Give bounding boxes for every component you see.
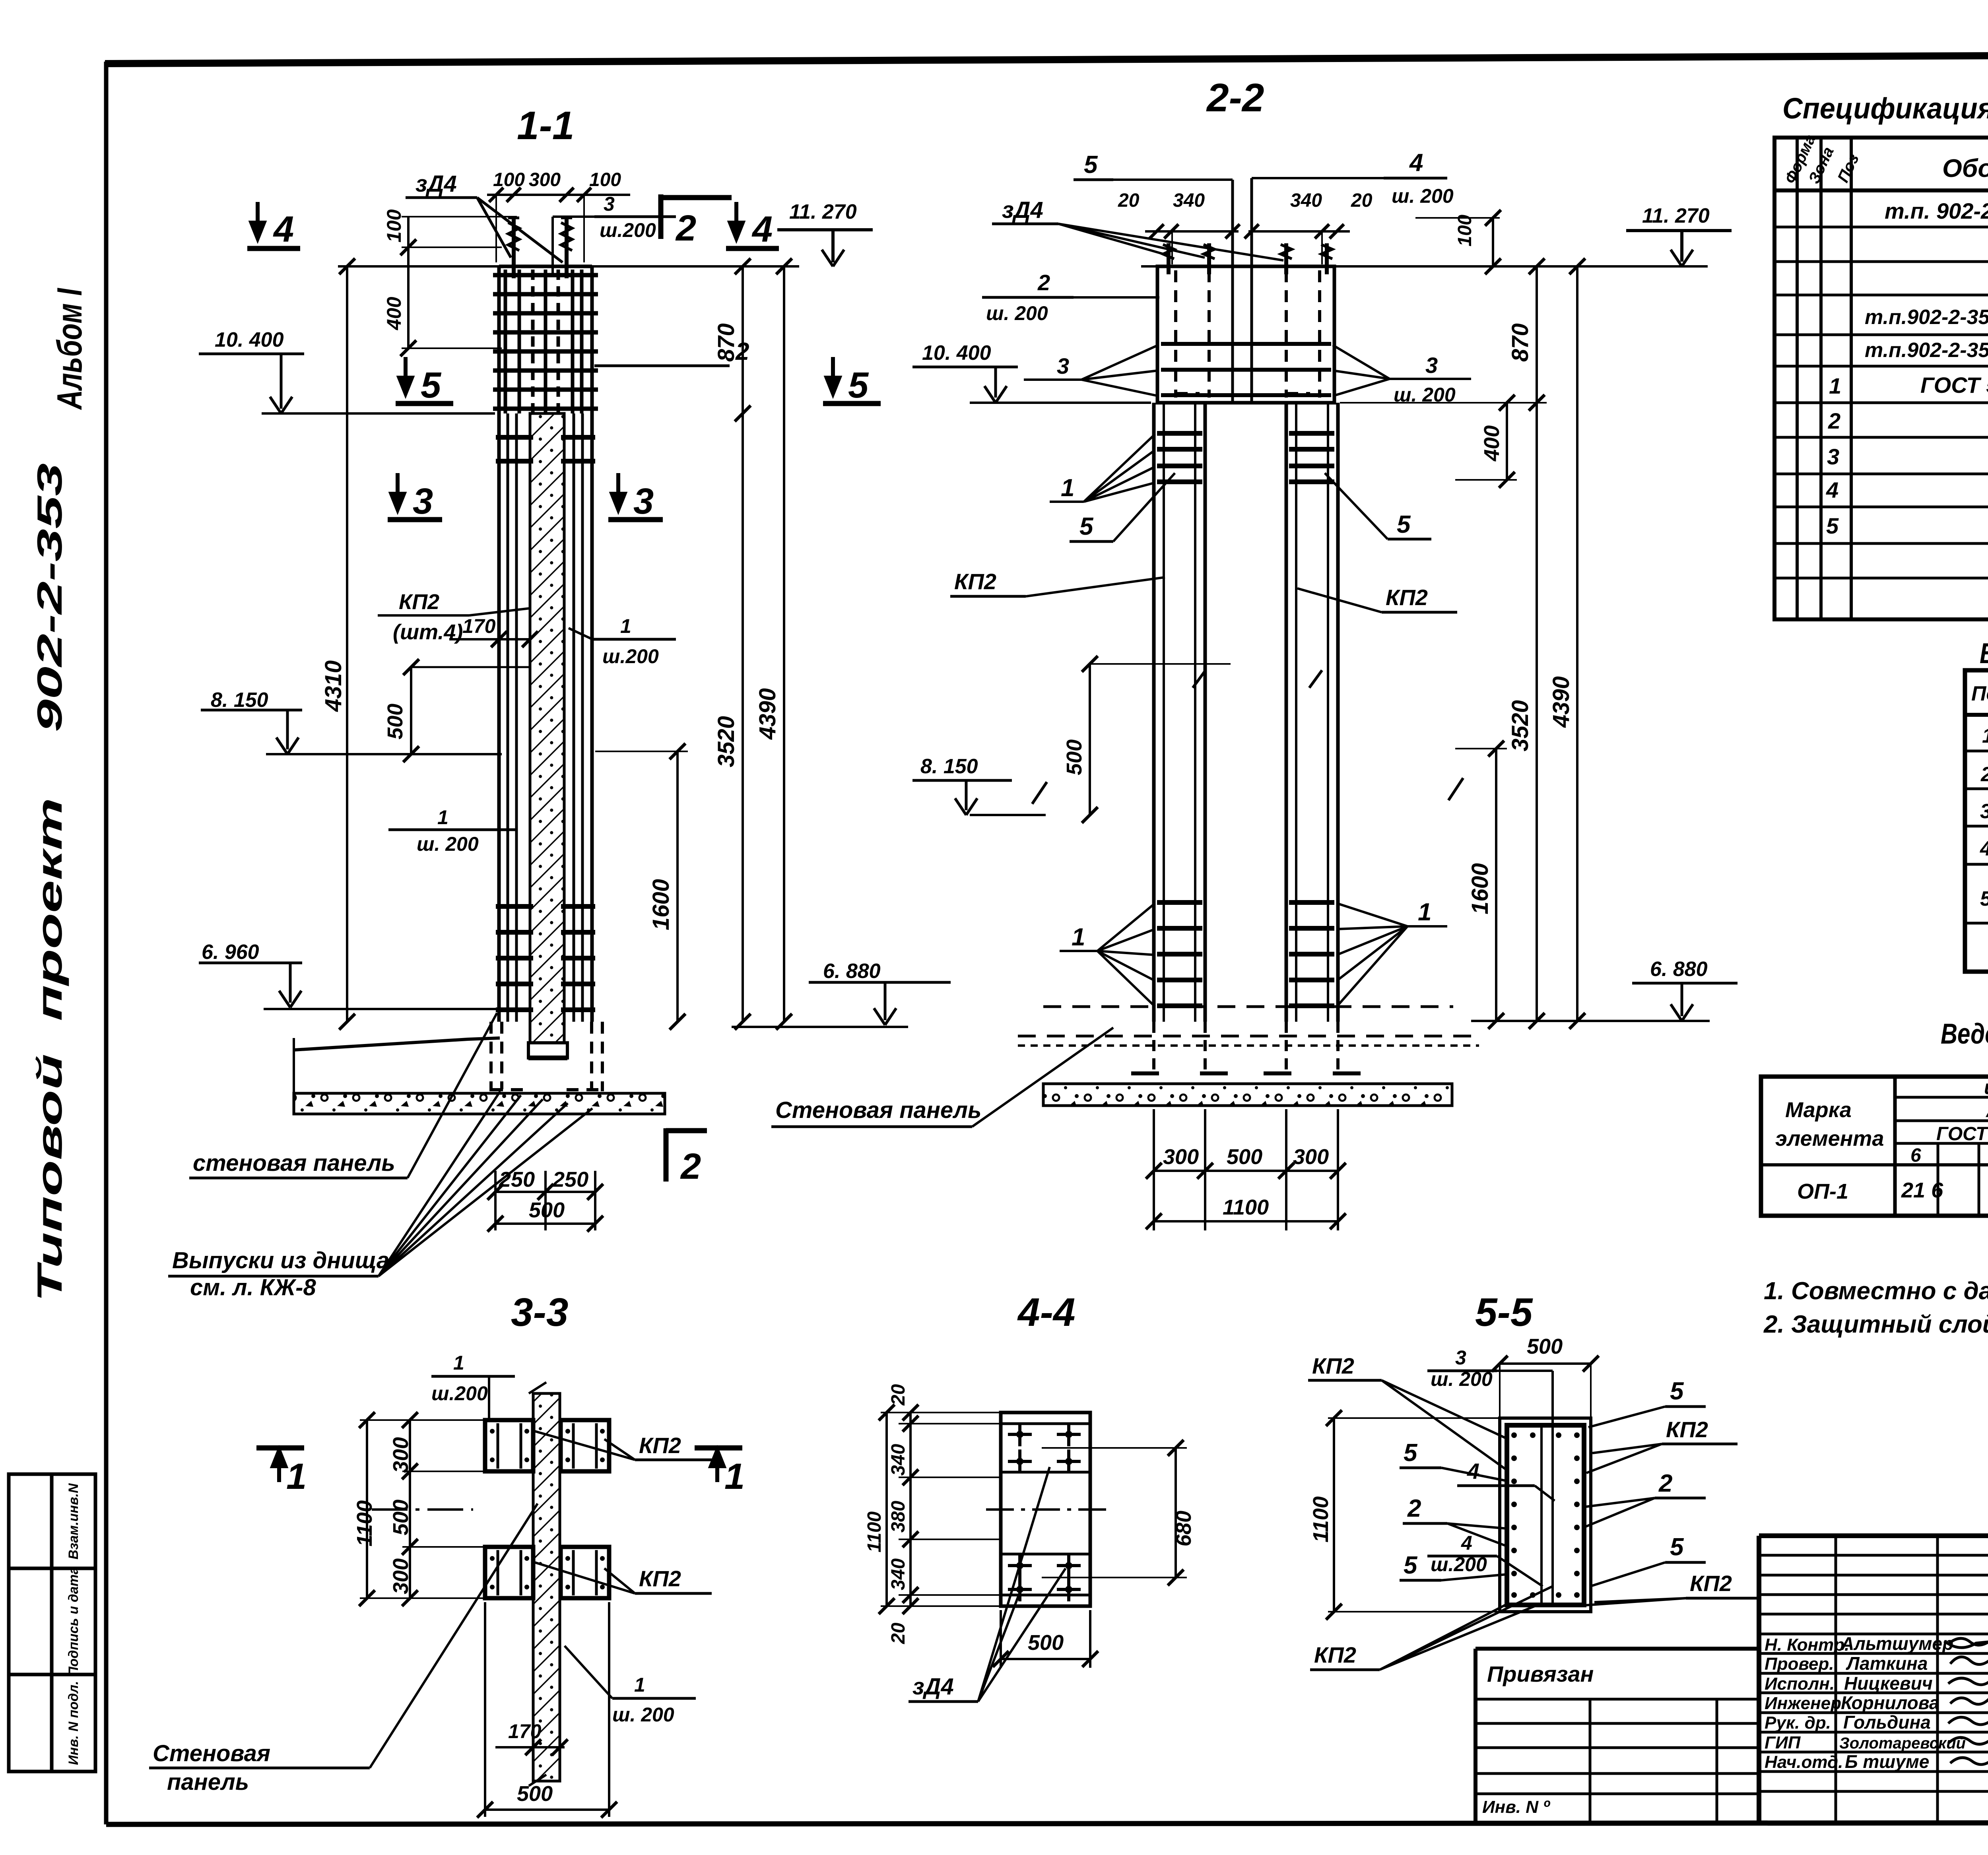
svg-text:1: 1 — [1418, 898, 1431, 926]
svg-text:4: 4 — [273, 209, 294, 250]
bottom dims 250/250/500 — [487, 1168, 603, 1232]
svg-text:5: 5 — [1980, 887, 1988, 910]
section marker 4 left — [247, 202, 300, 250]
lower leg ties 2-2 — [1157, 902, 1334, 1006]
lower ties — [496, 906, 595, 1010]
svg-text:300: 300 — [389, 1558, 413, 1594]
svg-text:2: 2 — [1407, 1495, 1421, 1522]
LEFTMARGIN — [9, 288, 95, 1772]
leg dashed continuations — [1154, 1022, 1338, 1073]
svg-text:10. 400: 10. 400 — [922, 342, 991, 365]
top rebar grid — [505, 270, 582, 413]
elevation 10.400 2-2 — [912, 342, 1151, 403]
svg-text:изделия: изделия — [1984, 1076, 1988, 1098]
svg-text:5: 5 — [1826, 513, 1839, 538]
svg-text:6. 960: 6. 960 — [202, 941, 259, 964]
svg-text:250: 250 — [552, 1168, 588, 1191]
svg-text:3: 3 — [1827, 444, 1839, 469]
svg-text:4: 4 — [1461, 1532, 1472, 1554]
wall panel strip 3-3 — [533, 1393, 560, 1781]
svg-text:ш.200: ш.200 — [431, 1382, 488, 1405]
label 3 ш.200 top 5-5 — [1427, 1347, 1553, 1425]
dim column 20/340/380/340/20 — [864, 1384, 1001, 1644]
svg-text:500: 500 — [1062, 739, 1086, 775]
bar 5 leader top — [1074, 151, 1233, 403]
svg-text:ГОСТ 5781-81: ГОСТ 5781-81 — [1920, 373, 1988, 398]
label 3Д4 2-2 — [992, 197, 1283, 260]
floor slab line — [294, 1038, 500, 1050]
svg-text:КП2: КП2 — [1314, 1642, 1356, 1667]
svg-text:т.п.902-2-353-КЖИ-ОП-1-зД4: т.п.902-2-353-КЖИ-ОП-1-зД4 — [1865, 306, 1988, 329]
svg-text:8. 150: 8. 150 — [211, 689, 268, 712]
svg-text:5: 5 — [848, 365, 869, 406]
svg-text:4: 4 — [1980, 837, 1988, 860]
cage box bottom-right — [561, 1547, 609, 1598]
svg-text:300: 300 — [1293, 1145, 1329, 1169]
label КП2 top-left 5-5 — [1308, 1353, 1508, 1471]
S55 — [1308, 1290, 1761, 1670]
steel table texts — [1775, 1075, 1988, 1203]
dim 1600 right — [595, 743, 688, 1030]
title block outline — [1759, 1536, 1988, 1823]
svg-text:5: 5 — [1084, 151, 1098, 179]
upper ties below grid — [496, 437, 595, 461]
cap dashed rebars — [1176, 270, 1320, 398]
cap horizontal bars — [1161, 344, 1331, 395]
label 1 ш.200 bottom 3-3 — [565, 1646, 696, 1726]
svg-text:см. л. КЖ-8: см. л. КЖ-8 — [190, 1275, 316, 1300]
svg-text:ГИП: ГИП — [1765, 1733, 1801, 1752]
NOTES — [1763, 1277, 1988, 1338]
section marker 2 bottom — [666, 1128, 707, 1187]
label 3 ш.200 right 2-2 — [1333, 345, 1471, 406]
frame top — [105, 53, 1988, 64]
svg-text:ГОСТ 5781- 81: ГОСТ 5781- 81 — [1936, 1123, 1988, 1145]
svg-text:1: 1 — [724, 1456, 745, 1497]
svg-text:5: 5 — [1670, 1378, 1684, 1405]
svg-text:5: 5 — [1397, 511, 1411, 538]
S44 — [864, 1290, 1196, 1702]
svg-text:2: 2 — [1658, 1470, 1672, 1497]
S22 — [771, 76, 1738, 1230]
svg-text:Марка: Марка — [1785, 1098, 1852, 1122]
label 1 upper left — [1050, 434, 1155, 502]
svg-text:500: 500 — [517, 1782, 553, 1806]
svg-text:ОП-1: ОП-1 — [1797, 1180, 1848, 1203]
label 3Д4 4-4 — [909, 1467, 1066, 1702]
svg-text:Нач.отд.: Нач.отд. — [1765, 1752, 1843, 1772]
svg-text:100: 100 — [1454, 215, 1475, 246]
center axis line 3-3 — [372, 1508, 473, 1511]
cage box top-right — [561, 1420, 609, 1471]
dim 680 right 4-4 — [1042, 1440, 1196, 1585]
svg-text:340: 340 — [888, 1444, 909, 1476]
dim 300 500 300 left 3-3 — [360, 1412, 485, 1606]
svg-text:Стеновая: Стеновая — [153, 1741, 270, 1766]
svg-text:Привязан: Привязан — [1487, 1661, 1594, 1686]
svg-text:2: 2 — [1828, 408, 1840, 433]
svg-text:Рук. др.: Рук. др. — [1765, 1713, 1831, 1733]
svg-text:1: 1 — [1982, 724, 1988, 747]
svg-text:2-2: 2-2 — [1206, 76, 1264, 120]
wall panel hatched strip — [530, 413, 564, 1043]
label 5 left 5-5 — [1400, 1439, 1507, 1481]
svg-text:500: 500 — [529, 1198, 565, 1222]
svg-text:КП2: КП2 — [1690, 1571, 1732, 1596]
svg-text:170: 170 — [508, 1720, 542, 1742]
svg-text:ш. 200: ш. 200 — [1392, 185, 1454, 207]
svg-text:340: 340 — [1290, 190, 1322, 211]
svg-text:300: 300 — [389, 1437, 413, 1473]
svg-text:3: 3 — [1425, 353, 1438, 378]
svg-text:340: 340 — [1173, 190, 1205, 211]
rebar cage 5-5 — [1507, 1425, 1584, 1605]
svg-text:4: 4 — [1409, 149, 1423, 177]
dim 500 top 5-5 — [1492, 1335, 1599, 1418]
column outline 1-1 — [499, 266, 592, 1022]
svg-text:КП2: КП2 — [1666, 1417, 1708, 1442]
elevation 6.960 — [199, 941, 496, 1009]
spec rows text — [1826, 198, 1988, 612]
svg-text:11. 270: 11. 270 — [1642, 204, 1710, 227]
base dashed outline — [491, 1022, 602, 1091]
svg-text:1: 1 — [1061, 474, 1074, 502]
svg-text:300: 300 — [1163, 1145, 1199, 1169]
svg-text:3: 3 — [1455, 1347, 1466, 1369]
label 5 upper left — [1070, 473, 1175, 541]
level line 11.270 top — [338, 265, 799, 268]
svg-text:КП2: КП2 — [954, 569, 996, 594]
label Стеновая панель mid — [771, 1028, 1113, 1127]
label КП2 bottom right 3-3 — [535, 1562, 712, 1593]
label 5 bottom-right 5-5 — [1590, 1533, 1706, 1586]
rod table grid — [1965, 670, 1988, 972]
svg-text:т.п. 902-2-353-КЖ-18: т.п. 902-2-353-КЖ-18 — [1885, 198, 1988, 223]
label 3 ш.200 top — [553, 193, 676, 274]
svg-text:2. Защитный слой бетона: 2. Защитный слой бетона принят 20мм. — [1763, 1311, 1988, 1338]
bar 4 ш.200 leader top — [1252, 149, 1454, 403]
label 5 upper right — [1325, 473, 1431, 539]
dim 170 bottom 3-3 — [495, 1720, 568, 1781]
dim 500 mid 2-2 — [1062, 656, 1322, 823]
dim 1100 left 3-3 — [353, 1412, 377, 1606]
label 3Д4 — [406, 171, 563, 262]
SPECTABLE — [1774, 92, 1988, 619]
dim 100 top right 2-2 — [1415, 210, 1501, 274]
svg-text:1: 1 — [634, 1674, 645, 1696]
dim 500 mid 1-1 — [383, 659, 534, 762]
elevation 8.150 2-2 — [912, 755, 1047, 815]
svg-text:4: 4 — [1467, 1459, 1479, 1484]
break mark right leg — [1448, 778, 1463, 800]
svg-text:Золотаревский: Золотаревский — [1839, 1735, 1966, 1752]
label 1 lower left 2-2 — [1060, 903, 1155, 1007]
RODTABLE — [1965, 638, 1988, 972]
svg-text:300: 300 — [529, 169, 561, 190]
label Выпуски из днища — [168, 1091, 592, 1300]
svg-text:1100: 1100 — [353, 1500, 377, 1546]
section marker 3 right — [608, 473, 663, 522]
svg-text:Инв. N º: Инв. N º — [1482, 1797, 1550, 1817]
left grid of title block — [1759, 1536, 1988, 1823]
svg-text:КП2: КП2 — [399, 590, 439, 614]
legs outline — [1154, 403, 1338, 1022]
mid rebar verticals — [508, 413, 582, 1022]
svg-text:20: 20 — [888, 1384, 909, 1406]
svg-text:Типовой проект 902-2-353: Типовой проект 902-2-353 — [30, 463, 69, 1302]
dim 170 mid — [449, 615, 538, 647]
svg-text:20: 20 — [1351, 190, 1373, 211]
bottom dims 300 500 300 / 1100 — [1146, 1109, 1346, 1230]
embed plate outline 4-4 — [1001, 1413, 1090, 1606]
margin stamp boxes — [9, 1474, 95, 1772]
elevation 10.400 — [199, 328, 495, 413]
svg-text:1. Совместно с данным см.: 1. Совместно с данным см. листы КЖ-6, 17… — [1764, 1277, 1988, 1305]
svg-text:Корнилова: Корнилова — [1841, 1692, 1939, 1713]
anchor bolts top — [508, 218, 572, 278]
svg-text:500: 500 — [1227, 1145, 1262, 1169]
level line top 2-2 — [1141, 265, 1708, 268]
S11 — [168, 103, 951, 1300]
svg-text:зД4: зД4 — [1002, 197, 1043, 223]
svg-text:1: 1 — [437, 806, 448, 829]
svg-text:5: 5 — [421, 365, 442, 406]
anchor bolts 2-2 — [1163, 243, 1332, 274]
svg-text:3: 3 — [633, 481, 654, 522]
names — [1839, 1633, 1966, 1772]
spec table grid — [1774, 138, 1988, 619]
label 1 ш.200 mid — [569, 615, 676, 667]
elevation 8.150 — [201, 689, 502, 754]
label 1 ш.200 top 3-3 — [431, 1352, 515, 1419]
label КП2 left 2-2 — [950, 569, 1165, 596]
svg-text:5: 5 — [1404, 1552, 1418, 1579]
svg-text:Ведомость расхода стали: Ведомость расхода стали — [1941, 1018, 1988, 1050]
svg-text:6. 880: 6. 880 — [823, 960, 881, 983]
label 5 bottom-left 5-5 — [1400, 1552, 1507, 1580]
dim 4390 right 2-2 — [1548, 258, 1585, 1029]
svg-text:500: 500 — [1028, 1631, 1064, 1655]
svg-text:3: 3 — [1057, 353, 1069, 378]
svg-text:Латкина: Латкина — [1846, 1653, 1928, 1674]
dim 4310 left — [320, 258, 355, 1030]
svg-text:3: 3 — [604, 193, 615, 215]
svg-text:Обозначение: Обозначение — [1942, 154, 1988, 182]
svg-text:2: 2 — [675, 208, 696, 248]
rod table header — [1971, 682, 1988, 705]
S33 — [149, 1290, 745, 1818]
column outline 5-5 — [1500, 1418, 1591, 1612]
svg-text:элемента: элемента — [1775, 1127, 1884, 1151]
svg-text:Инженер: Инженер — [1765, 1694, 1841, 1713]
svg-text:1600: 1600 — [648, 879, 674, 930]
dim 870 + 3520 line right — [713, 258, 751, 1030]
ground hatch strip 2-2 — [1043, 1084, 1452, 1106]
svg-text:4: 4 — [1826, 477, 1839, 503]
svg-text:Поз: Поз — [1971, 682, 1988, 705]
svg-text:6: 6 — [1910, 1145, 1921, 1166]
STEELTABLE — [1761, 1018, 1988, 1216]
label 2 left 5-5 — [1403, 1495, 1508, 1546]
label КП2 right 5-5 — [1586, 1417, 1738, 1473]
section marker 5 right — [823, 357, 881, 406]
svg-text:5-5: 5-5 — [1475, 1290, 1533, 1335]
label КП2 right 2-2 — [1297, 585, 1457, 612]
label КП2 (шт.4) — [378, 590, 530, 644]
dim 500 bottom 4-4 — [993, 1610, 1098, 1668]
svg-text:Взам.инв.N: Взам.инв.N — [66, 1483, 81, 1560]
svg-text:ш.200: ш.200 — [602, 645, 659, 667]
svg-text:1100: 1100 — [1223, 1195, 1269, 1219]
svg-text:3520: 3520 — [1507, 700, 1533, 751]
svg-text:680: 680 — [1172, 1511, 1196, 1546]
svg-text:Альбом I: Альбом I — [50, 288, 89, 410]
svg-text:1: 1 — [1829, 373, 1841, 398]
svg-text:ш.200: ш.200 — [1431, 1553, 1487, 1576]
svg-text:КП2: КП2 — [639, 1433, 681, 1458]
elevation 6.880 2-2 — [1471, 958, 1738, 1021]
svg-text:6. 880: 6. 880 — [1650, 958, 1708, 981]
svg-text:Инв. N подл.: Инв. N подл. — [66, 1681, 81, 1765]
signatures scribbles — [1944, 1638, 1988, 1764]
label 3 left 2-2 — [1024, 345, 1158, 396]
svg-text:ш. 200: ш. 200 — [986, 302, 1048, 324]
role labels — [1765, 1635, 1849, 1772]
svg-text:Ведомость стержней: Ведомость стержней — [1980, 638, 1988, 669]
label КП2 bottom-left 5-5 — [1310, 1586, 1553, 1670]
svg-text:Провер.: Провер. — [1765, 1654, 1834, 1674]
svg-text:1600: 1600 — [1467, 863, 1493, 914]
svg-text:ш.200: ш.200 — [600, 219, 656, 241]
svg-text:зД4: зД4 — [415, 171, 457, 197]
cage box bottom-left — [485, 1547, 533, 1598]
elevation 11.270 right — [1626, 204, 1732, 266]
svg-text:1: 1 — [620, 615, 631, 637]
label 5 top-right 5-5 — [1588, 1378, 1706, 1427]
svg-text:зД4: зД4 — [912, 1674, 954, 1700]
svg-text:3-3: 3-3 — [511, 1290, 569, 1335]
svg-text:10. 400: 10. 400 — [215, 328, 284, 351]
svg-text:панель: панель — [167, 1769, 249, 1795]
dim 400 right 2-2 — [1455, 395, 1517, 488]
svg-text:170: 170 — [462, 615, 496, 637]
svg-text:3520: 3520 — [713, 716, 739, 767]
section marker T1 left — [256, 1448, 307, 1497]
svg-text:20: 20 — [888, 1622, 909, 1644]
spec header texts — [1781, 132, 1988, 218]
section marker T1 right — [695, 1448, 745, 1497]
svg-text:5: 5 — [1079, 513, 1094, 540]
svg-text:500: 500 — [389, 1500, 413, 1535]
svg-text:1: 1 — [1072, 924, 1085, 951]
svg-text:5: 5 — [1404, 1439, 1418, 1467]
svg-text:100: 100 — [383, 209, 405, 243]
svg-text:250: 250 — [499, 1168, 535, 1191]
svg-text:Альтшумер: Альтшумер — [1840, 1633, 1953, 1654]
svg-text:Выпуски из днища: Выпуски из днища — [172, 1248, 389, 1273]
elevation mark 11.270 — [777, 200, 873, 266]
svg-text:1: 1 — [453, 1352, 464, 1374]
dim 1600 right 2-2 — [1455, 741, 1507, 1029]
svg-text:11. 270: 11. 270 — [789, 200, 857, 223]
section marker 5 left — [396, 357, 453, 406]
label 4 ш.200 lower 5-5 — [1427, 1532, 1543, 1586]
leg inner rebars — [1164, 403, 1328, 1022]
label 4 mid 5-5 — [1457, 1459, 1555, 1501]
label стеновая панель 1-1 — [189, 1013, 497, 1178]
svg-text:Б тшуме: Б тшуме — [1845, 1751, 1929, 1772]
svg-text:ш. 200: ш. 200 — [612, 1704, 674, 1726]
svg-text:ш. 200: ш. 200 — [417, 833, 479, 855]
leg bottom hooks — [1131, 1071, 1361, 1075]
rebar label 2 right — [594, 338, 749, 366]
dim 4390 right — [755, 258, 792, 1030]
label Стеновая панель 3-3 — [149, 1504, 538, 1795]
svg-text:1100: 1100 — [1309, 1496, 1333, 1543]
rod rows — [1980, 717, 1988, 910]
svg-text:Гольдина: Гольдина — [1843, 1712, 1931, 1733]
upper leg ties — [1157, 433, 1334, 482]
frame bottom — [106, 1822, 1988, 1824]
svg-text:Исполн.: Исполн. — [1765, 1674, 1835, 1694]
svg-text:380: 380 — [888, 1501, 909, 1533]
svg-text:Стеновая панель: Стеновая панель — [775, 1097, 981, 1123]
svg-text:100: 100 — [589, 169, 621, 190]
frame left — [104, 62, 109, 1824]
svg-text:500: 500 — [383, 704, 407, 739]
svg-text:21 6: 21 6 — [1901, 1178, 1943, 1202]
svg-text:3: 3 — [413, 481, 433, 522]
svg-text:1: 1 — [286, 1456, 307, 1497]
svg-text:500: 500 — [1527, 1335, 1563, 1358]
svg-text:АI: АI — [1985, 1099, 1988, 1122]
section marker 3 left — [388, 473, 442, 522]
svg-text:КП2: КП2 — [1386, 585, 1428, 610]
TITLEBLOCK — [1475, 1216, 1988, 1855]
svg-text:КП2: КП2 — [639, 1566, 681, 1591]
svg-text:3: 3 — [1980, 800, 1988, 823]
ground hatch strip — [294, 1093, 665, 1114]
dim 870+3520 right 2-2 — [1340, 258, 1547, 1029]
label 2 right 5-5 — [1586, 1470, 1706, 1527]
svg-text:Подпись и дата: Подпись и дата — [66, 1567, 81, 1676]
svg-text:400: 400 — [1480, 425, 1504, 462]
svg-text:Спецификация элементов монол: Спецификация элементов монолитной опоры … — [1782, 92, 1988, 125]
svg-text:2: 2 — [1037, 270, 1050, 295]
svg-text:2: 2 — [735, 338, 749, 365]
dim 100/400 upper-left — [383, 209, 517, 356]
section marker 2 top — [661, 194, 732, 248]
svg-text:4390: 4390 — [755, 688, 780, 740]
svg-text:Ницкевич: Ницкевич — [1844, 1673, 1933, 1694]
elevation 6.880 right — [732, 960, 951, 1027]
svg-text:4-4: 4-4 — [1017, 1290, 1076, 1335]
label 1 lower right 2-2 — [1337, 898, 1447, 1007]
svg-text:2: 2 — [1980, 763, 1988, 786]
label 1 ш.200 lower — [388, 806, 518, 855]
steel table grid — [1761, 1077, 1988, 1216]
label КП2 top right 3-3 — [535, 1431, 712, 1460]
svg-text:т.п.902-2-353-КЖИ-ОП-1-КП2: т.п.902-2-353-КЖИ-ОП-1-КП2 — [1865, 339, 1988, 362]
dim 1100 left 5-5 — [1309, 1410, 1500, 1620]
svg-text:4390: 4390 — [1548, 676, 1574, 728]
svg-text:2: 2 — [680, 1146, 701, 1187]
label КП2 bottom-right 5-5 — [1573, 1571, 1761, 1606]
inner verticals 5-5 — [1540, 1425, 1543, 1605]
section marker 4 right — [726, 202, 779, 250]
svg-text:КП2: КП2 — [1312, 1353, 1354, 1378]
bolts 4-4 — [1008, 1422, 1081, 1601]
